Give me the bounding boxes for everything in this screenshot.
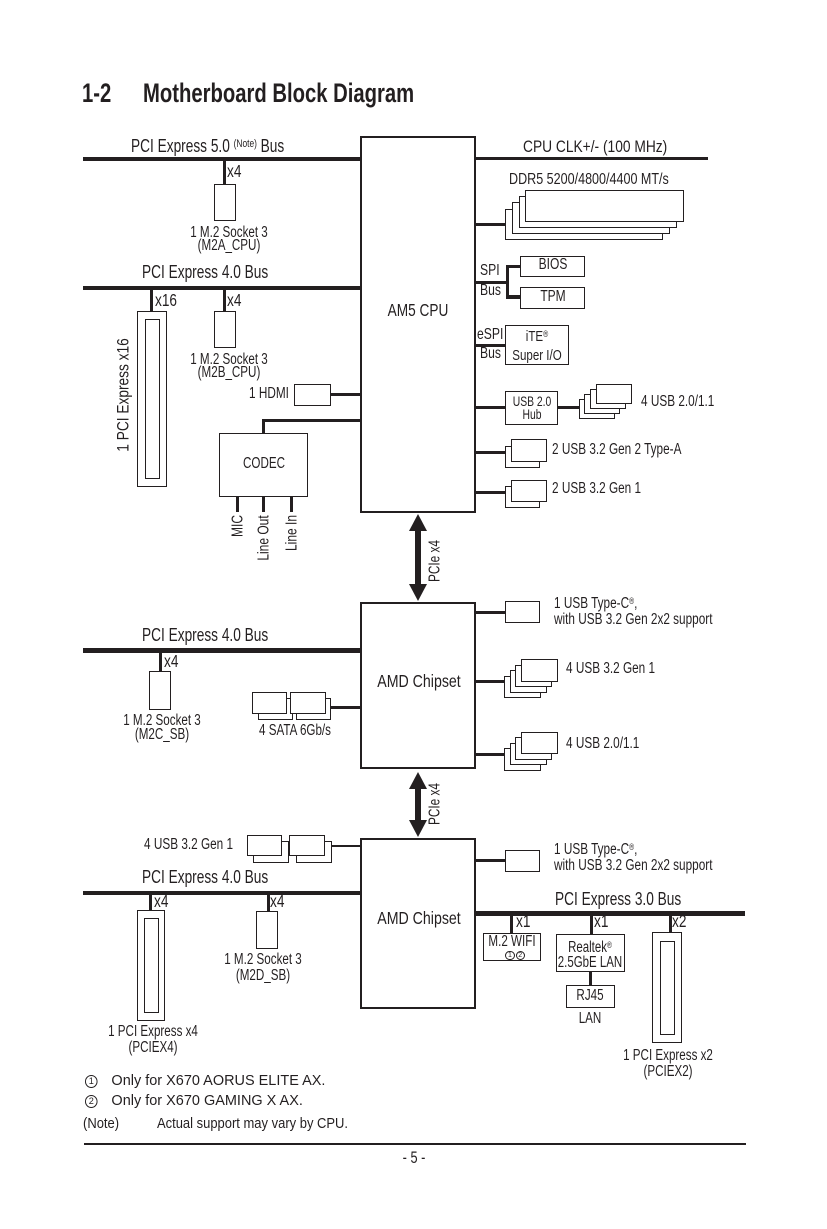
AMD chipset 1 box xyxy=(360,602,476,769)
wire SPI bracket vertical xyxy=(506,265,510,299)
page number xyxy=(403,1149,426,1166)
label 2 USB 3.2 Gen 1 xyxy=(552,481,641,497)
SATA pair right back xyxy=(296,698,331,720)
4 USB 2.0 stack xyxy=(504,748,541,771)
wire chipset1 to 4 USB3.2 Gen1 stack xyxy=(476,680,521,683)
wire pairs to chipset2 xyxy=(310,845,360,848)
label x1 (realtek) xyxy=(594,913,608,931)
label M.2 WIFI xyxy=(488,935,535,948)
CPU box xyxy=(360,136,476,513)
USB 3.2 Gen1 pair right front xyxy=(289,835,325,857)
label x16 xyxy=(155,292,177,310)
label M2A_CPU xyxy=(190,226,268,253)
wire hub to stack xyxy=(558,406,596,409)
wire x4 drop to PCIEX4 xyxy=(149,895,152,910)
label PCIEX2 xyxy=(623,1048,713,1080)
label eSPI xyxy=(477,327,503,343)
label x1 xyxy=(516,913,530,931)
pcie x16 slot inner xyxy=(145,319,160,479)
M.2 socket M2D_SB xyxy=(256,911,278,949)
PCIEX2 slot inner xyxy=(660,941,675,1036)
pcie x16 slot outer xyxy=(137,311,167,487)
wire Line In stub xyxy=(290,497,293,512)
wire CPU to Gen1 xyxy=(476,491,512,494)
wire PCIe 4.0 bus (chipset1) xyxy=(83,648,360,653)
footer rule xyxy=(84,1143,746,1145)
M.2 WIFI box xyxy=(483,933,541,961)
label 4 USB 2.0/1.1 xyxy=(641,394,714,410)
arrow PCIe x4 CPU-chipset1 xyxy=(409,514,427,601)
label 4 SATA 6Gb/s xyxy=(259,724,331,738)
label x2 xyxy=(672,913,686,931)
PCIEX4 slot inner xyxy=(144,918,159,1013)
footnote 1 xyxy=(85,1073,325,1088)
DIMM stack xyxy=(505,209,663,241)
bus label CPU CLK xyxy=(523,138,667,155)
label M2D_SB xyxy=(224,952,302,983)
wire PCIe 5.0 bus xyxy=(83,157,360,162)
label AMD Chipset xyxy=(377,673,461,691)
label 4 USB 3.2 Gen 1 (chipset2) xyxy=(144,837,233,853)
label M2C_SB xyxy=(123,714,201,741)
BIOS box xyxy=(520,256,584,278)
bus label PCI Express 3.0 Bus xyxy=(555,890,681,908)
label 1 HDMI xyxy=(249,386,289,402)
M.2 socket M2A_CPU xyxy=(214,184,236,222)
USB 3.2 Gen1 pair right back xyxy=(296,841,332,863)
label 1 PCI Express x16 (rotated) xyxy=(116,338,132,451)
2 USB 3.2 Gen1 stack xyxy=(505,486,541,508)
label RJ45 xyxy=(577,989,604,1003)
label 2 USB 3.2 Gen 2 Type-A xyxy=(552,442,681,458)
iTE Super I/O box xyxy=(505,325,569,365)
title text xyxy=(143,80,414,107)
wire stub to BIOS xyxy=(506,265,521,269)
RJ45 box xyxy=(566,985,615,1008)
label Line Out (rotated) xyxy=(256,515,272,560)
2 USB 3.2 Gen2 TypeA stack xyxy=(505,446,541,469)
label Bus xyxy=(480,283,501,299)
bus label PCI Express 4.0 Bus (chipset1) xyxy=(142,626,268,644)
label CODEC xyxy=(243,457,285,471)
wire chipset1 to 4 USB2.0 stack xyxy=(476,753,521,756)
wire SATA to chipset1 xyxy=(310,706,360,709)
wire CODEC vertical xyxy=(262,419,265,433)
PCIEX4 slot outer xyxy=(137,910,165,1021)
SATA pair left back xyxy=(258,698,293,720)
arrow PCIe x4 chipset1-chipset2 xyxy=(409,772,427,837)
label TPM xyxy=(540,290,565,304)
footnote 2 xyxy=(85,1093,303,1108)
wire CPU to USB2 hub xyxy=(476,406,506,409)
label x4 (M2D) xyxy=(270,893,284,911)
USB 2.0 stack (4) xyxy=(579,399,615,419)
bus label PCI Express 4.0 Bus (CPU) xyxy=(142,263,268,281)
label 4 USB 3.2 Gen 1 xyxy=(566,661,655,677)
label circled 2 (wifi) xyxy=(516,951,525,960)
wire CPU to TypeA xyxy=(476,451,512,454)
bus label PCI Express 4.0 Bus (chipset2) xyxy=(142,868,268,886)
wire PCIe 4.0 bus (chipset2) xyxy=(83,891,362,896)
label x4 xyxy=(227,292,241,310)
label iTE Super I/O xyxy=(513,325,562,366)
PCIEX2 slot outer xyxy=(652,932,682,1043)
M.2 socket M2C_SB xyxy=(149,671,171,710)
AMD chipset 2 box xyxy=(360,838,476,1010)
label DDR5 xyxy=(509,172,669,188)
label AM5 CPU xyxy=(387,302,448,320)
label 4 USB 2.0/1.1 xyxy=(566,736,639,752)
wire SPI from CPU xyxy=(476,281,510,284)
wire x4 drop to M2C xyxy=(159,653,162,672)
wire x4 drop to M2A xyxy=(223,161,227,184)
wire eSPI from CPU xyxy=(476,344,507,347)
label MIC (rotated) xyxy=(230,515,246,537)
wire Realtek to RJ45 xyxy=(589,972,592,985)
wire CPU to DIMMs xyxy=(476,223,521,226)
HDMI box xyxy=(294,384,332,406)
wire x1 drop to M.2 WIFI xyxy=(510,916,513,933)
label 1 USB Type-C (chipset2) xyxy=(554,839,712,874)
wire PCIe 4.0 bus (CPU) xyxy=(83,286,360,291)
4 USB 3.2 Gen1 stack xyxy=(504,676,541,699)
wire Line Out stub xyxy=(262,497,265,512)
M.2 socket M2B_CPU xyxy=(214,311,236,348)
label M2B_CPU xyxy=(190,353,268,380)
label x4 xyxy=(227,163,241,181)
wire x16 drop xyxy=(150,290,153,311)
label PCIEX4 xyxy=(108,1024,198,1055)
bus label PCI Express 5.0 Bus xyxy=(131,135,284,155)
label LAN xyxy=(579,1012,602,1026)
label 1 USB Type-C (chipset1) xyxy=(554,593,712,628)
wire x1 drop to Realtek xyxy=(590,916,593,934)
wire chipset1 to TypeC xyxy=(476,611,506,614)
label SPI xyxy=(480,263,500,279)
label Realtek 2.5GbE LAN xyxy=(558,938,622,970)
wire chipset2 to TypeC2 xyxy=(476,859,506,862)
wire HDMI to CPU xyxy=(331,393,360,396)
wire CODEC to CPU horizontal xyxy=(262,419,360,422)
wire PCIe 3.0 bus xyxy=(476,911,745,916)
footnote note xyxy=(83,1116,348,1131)
wire x4 drop to M2D xyxy=(267,895,270,911)
label PCIe x4 (rotated) xyxy=(428,783,444,825)
SATA pair left front xyxy=(252,692,287,714)
label circled 1 (wifi) xyxy=(505,951,514,960)
wire x4 drop to M2B xyxy=(223,290,227,311)
wire stub to TPM xyxy=(506,295,521,299)
USB TypeC box (chipset2) xyxy=(505,850,540,872)
label Bus (eSPI) xyxy=(480,346,501,362)
TPM box xyxy=(520,287,584,309)
label x4 xyxy=(164,653,178,671)
wire CPU CLK line xyxy=(476,157,708,160)
CODEC box xyxy=(219,433,308,497)
title number 1-2 xyxy=(82,80,111,107)
label USB 2.0 Hub xyxy=(512,395,551,421)
label Line In (rotated) xyxy=(284,515,300,551)
label PCIe x4 (rotated) xyxy=(428,540,444,582)
label AMD Chipset 2 xyxy=(377,910,461,928)
USB 2.0 Hub box xyxy=(505,391,558,426)
Realtek box xyxy=(556,934,626,972)
SATA pair right front xyxy=(290,692,325,714)
USB 3.2 Gen1 pair left front xyxy=(247,835,283,857)
wire x2 drop to PCIEX2 xyxy=(669,916,672,932)
USB 3.2 Gen1 pair left back xyxy=(253,841,289,863)
label x4 (PCIEX4) xyxy=(154,893,168,911)
USB TypeC box (chipset1) xyxy=(505,601,540,623)
wire MIC stub xyxy=(236,497,239,512)
label BIOS xyxy=(538,258,567,272)
